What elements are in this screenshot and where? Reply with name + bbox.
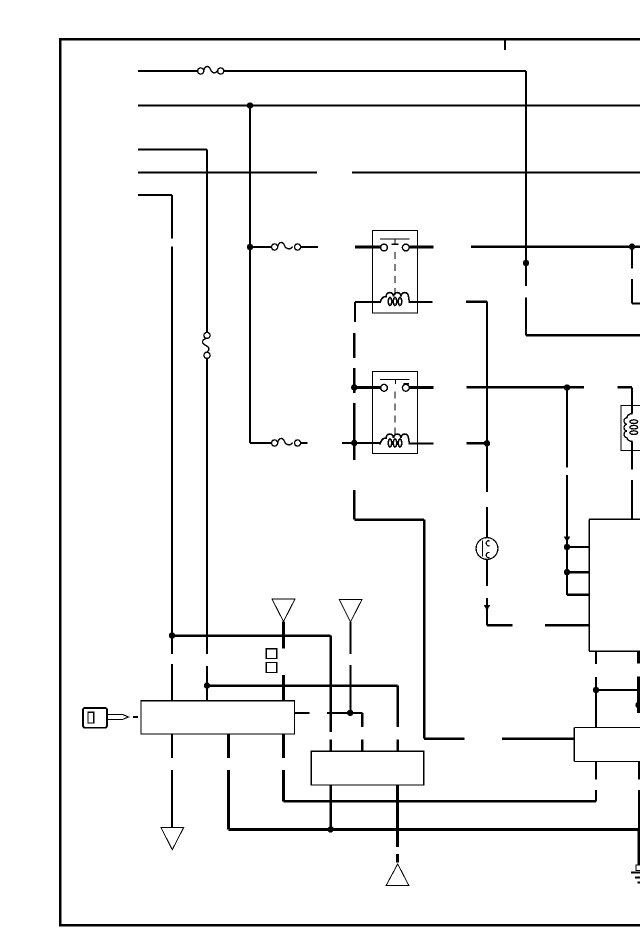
wire L3 [138, 148, 207, 150]
node junction x487 coil [484, 440, 490, 446]
wire relay U2 coil right [410, 442, 488, 444]
wire x632 from junction down / out right [632, 247, 640, 304]
wire y801 [284, 800, 597, 803]
key symbol [83, 708, 138, 728]
wire F2 feed [250, 246, 318, 248]
relay U1 box [373, 231, 418, 314]
wire relay U2 contact right [409, 386, 632, 389]
wire relay U1 contact right [409, 245, 640, 248]
node junction x567/y547 [564, 544, 570, 550]
ground G2 chassis right [638, 829, 640, 865]
coil L1 winding [624, 414, 638, 442]
wire dashed x354 down [353, 333, 355, 520]
wire L5 [138, 194, 172, 196]
relay U1 actuator dashed [394, 252, 396, 295]
wire stub x596 below ECM [595, 651, 597, 727]
wire L1 hot feed [138, 70, 526, 72]
page arrow T4 triangle up [386, 864, 409, 885]
wire y690 [596, 689, 639, 691]
node junction x350/y713 [347, 710, 353, 716]
node junction F2 start [247, 244, 253, 250]
wire T2 down [349, 622, 351, 713]
relay U2 contact pins [381, 384, 410, 391]
connector squares [266, 649, 276, 659]
ground G1 triangle down [161, 828, 184, 850]
wire x330 into K1 [331, 740, 398, 752]
node junction x354/relay2 contact [351, 384, 357, 390]
fuse F1 [198, 66, 224, 74]
wire stubs below B2 [596, 761, 639, 829]
wire fuse F3 feed [250, 442, 308, 444]
wire vertical x526 [526, 71, 640, 335]
node junction x354/relay2 coil [351, 440, 357, 446]
condenser P1 circle [476, 538, 498, 560]
node junction x172/y635 [169, 632, 175, 638]
wire y685 [207, 686, 398, 727]
ignition switch box [141, 701, 295, 734]
node junction y246/x632 [629, 244, 635, 250]
wire vertical x207 [206, 150, 208, 702]
wire into coil box [631, 387, 633, 519]
fuse F4 vertical [202, 332, 210, 358]
wire relay U2 contact left [354, 386, 380, 389]
wire right edge bar [637, 652, 640, 713]
wire switch right stub [295, 713, 363, 751]
relay U2 actuator dashed [394, 392, 396, 437]
wire y519 link [354, 518, 424, 521]
node junction L2/x250 [247, 102, 253, 108]
wire relay U1 coil right [410, 301, 488, 303]
relay U1 contact pins [381, 244, 410, 251]
relay U1 armature [392, 239, 399, 244]
relay U1 contact bar [380, 238, 410, 240]
relay U2 armature [396, 380, 410, 385]
fuse F3 [272, 438, 301, 446]
node dot x526 [523, 260, 529, 266]
page arrow T2 triangle [339, 599, 362, 622]
wire stubs x567 to ECM box [567, 547, 589, 595]
noise condenser L1 box [621, 406, 640, 451]
connector box K1 [311, 751, 424, 785]
wire vertical x172 [171, 195, 173, 701]
node junction x596/y690 [593, 687, 599, 693]
node tick top [504, 39, 506, 50]
page arrow T1 triangle [272, 599, 295, 622]
node junction x207/y685 [204, 682, 210, 688]
ECM big box [589, 519, 640, 651]
node junction x567/y572 [564, 569, 570, 575]
wire vertical x567 [566, 388, 568, 595]
wire y829 [228, 828, 639, 831]
wire vertical x487 [487, 302, 589, 626]
wire vertical x250 [249, 106, 251, 444]
wire L4 [138, 171, 640, 173]
wire x283 below switch [282, 734, 285, 801]
connector box B2 [574, 727, 640, 761]
wire relay U1 coil left + corner down [355, 302, 380, 322]
relay U2 contact bar [380, 379, 410, 381]
wire L2 [138, 104, 640, 106]
wire x172 below switch [171, 734, 173, 828]
relay U2 coil [380, 434, 410, 447]
wire relay U2 coil left [342, 442, 380, 444]
relay U1 coil [380, 293, 410, 306]
wire y635 [172, 636, 331, 732]
fuse F2 [272, 242, 301, 250]
node junction x567/y387 [564, 384, 570, 390]
wire into B2 left [424, 520, 574, 739]
wire T1 down [282, 622, 285, 702]
wire x228 below switch [227, 734, 230, 829]
relay U2 box [373, 372, 418, 454]
node junction right edge [635, 702, 640, 708]
wire relay U1 contact left [355, 246, 381, 249]
node arrow x487 [484, 605, 490, 611]
node junction x330/y829 [327, 826, 333, 832]
node arrow x567 [564, 537, 570, 543]
wire K1 bottom stubs [331, 785, 398, 862]
